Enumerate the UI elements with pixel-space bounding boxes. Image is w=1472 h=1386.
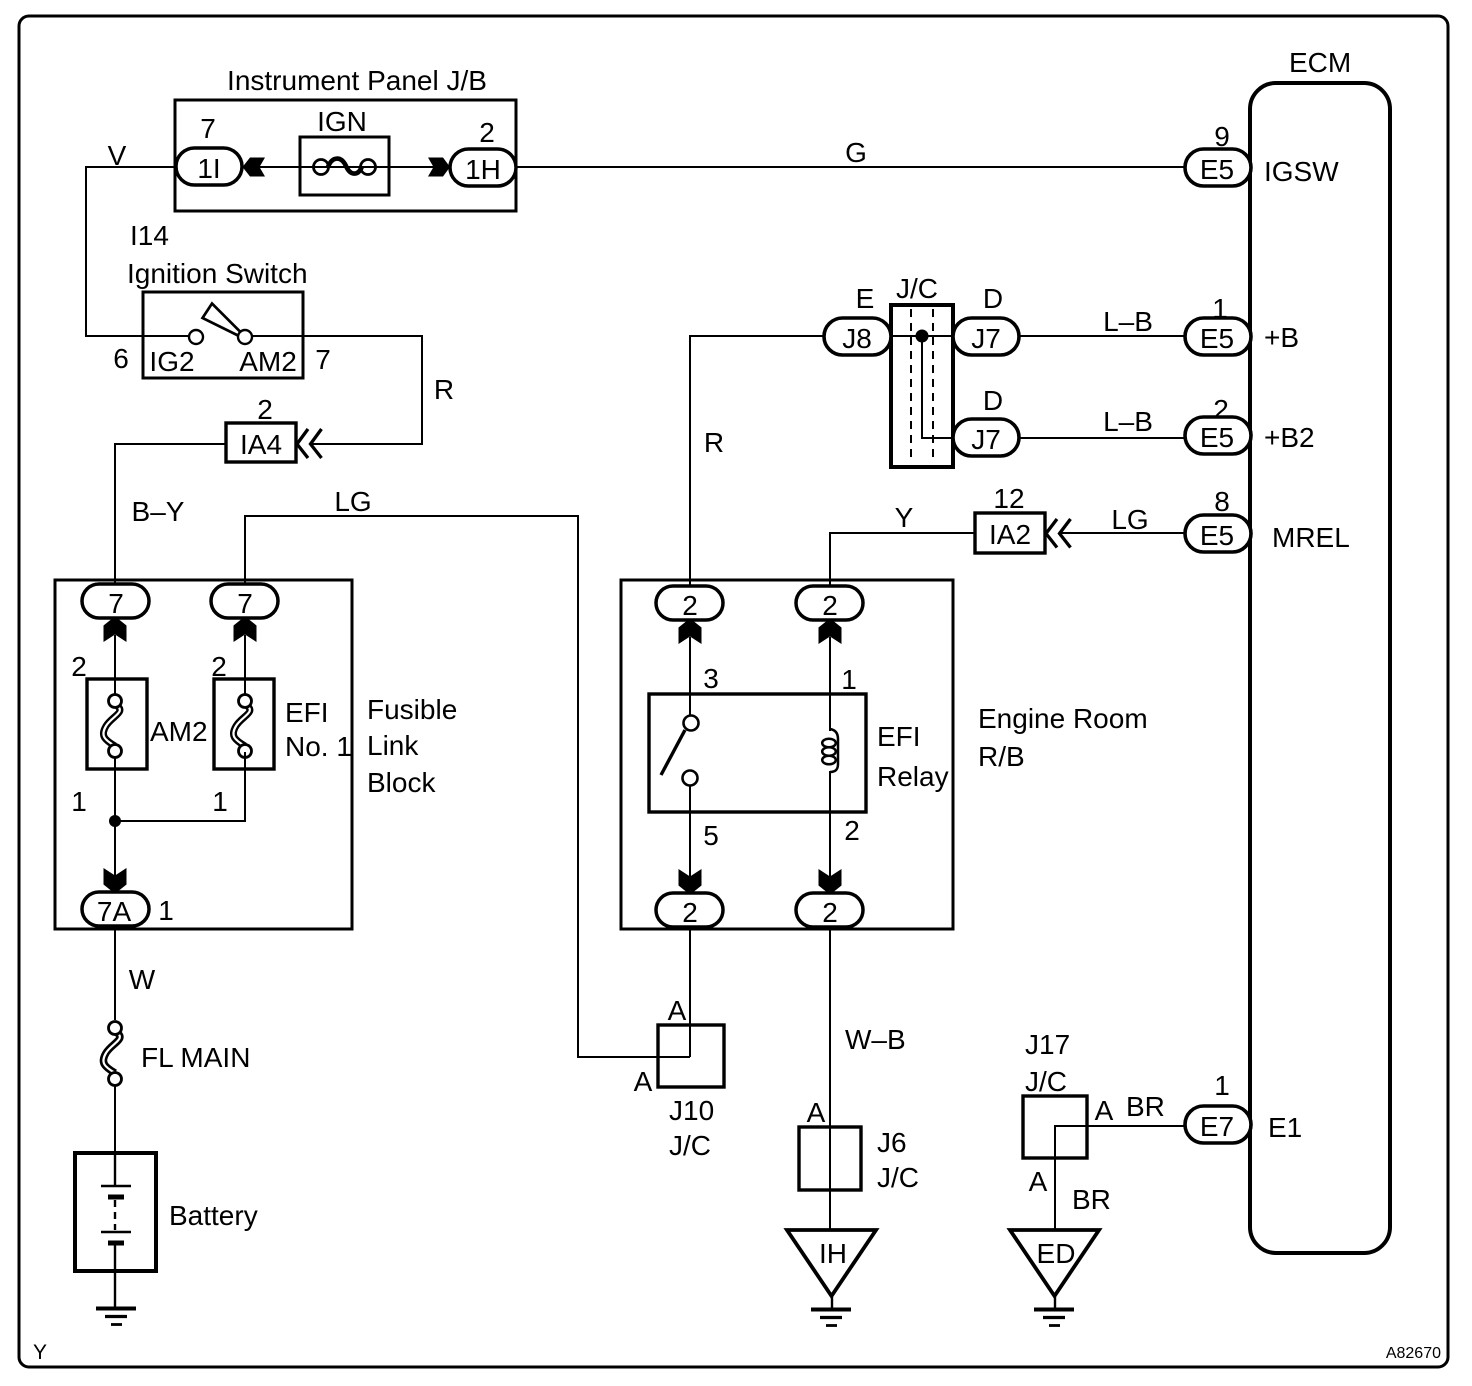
svg-text:A: A [807, 1097, 826, 1128]
svg-text:IGN: IGN [317, 106, 367, 137]
ECM box [1250, 83, 1390, 1253]
svg-text:EFI: EFI [877, 721, 921, 752]
connector 7 (right) [211, 584, 278, 619]
fuse IGN symbol [300, 159, 389, 175]
svg-text:AM2: AM2 [150, 716, 208, 747]
wire battery to ground [114, 1271, 116, 1307]
connector E5 +B [1185, 318, 1251, 355]
svg-text:BR: BR [1126, 1091, 1165, 1122]
connector IA4 [226, 423, 296, 462]
svg-text:2: 2 [682, 897, 698, 928]
wire Y from IA2 to relay coil pin 1 [830, 533, 975, 586]
svg-text:E7: E7 [1200, 1111, 1234, 1142]
svg-text:AM2: AM2 [239, 346, 297, 377]
svg-text:ED: ED [1037, 1238, 1076, 1269]
fusible link EFI No.1 box [214, 679, 274, 769]
wire pin3 [689, 637, 691, 716]
svg-text:LG: LG [334, 486, 371, 517]
svg-text:2: 2 [479, 117, 495, 148]
svg-text:6: 6 [113, 343, 129, 374]
svg-text:2: 2 [844, 815, 860, 846]
svg-text:E5: E5 [1200, 520, 1234, 551]
connector 2 (top left) [656, 586, 723, 621]
fusible link EFI No.1 symbol [233, 695, 251, 758]
svg-text:E5: E5 [1200, 422, 1234, 453]
svg-text:Engine Room: Engine Room [978, 703, 1148, 734]
svg-text:E: E [856, 283, 875, 314]
wire inside J/C down to J7 bottom [922, 336, 953, 438]
wire through J6 [829, 1127, 831, 1230]
svg-text:1H: 1H [465, 154, 501, 185]
svg-text:J7: J7 [971, 424, 1001, 455]
arrow into 1I (left-pointing solid) [243, 158, 266, 177]
svg-text:Y: Y [33, 1341, 47, 1364]
junction connector block (dashed) [891, 305, 953, 467]
connector E5 MREL [1185, 515, 1251, 552]
svg-text:I14: I14 [130, 220, 169, 251]
relay coil [822, 729, 838, 772]
up arrow under top-left 2 [679, 622, 702, 645]
IG2 contact circle [189, 330, 203, 344]
svg-text:J6: J6 [877, 1127, 907, 1158]
svg-text:W–B: W–B [845, 1024, 906, 1055]
wire R from J8 left down to EFI relay pin 3 [690, 336, 824, 586]
svg-text:+B: +B [1264, 322, 1299, 353]
connector J8 [824, 318, 891, 355]
svg-text:R: R [434, 374, 454, 405]
svg-text:1: 1 [841, 664, 857, 695]
fuse IGN box [300, 137, 389, 195]
svg-text:L–B: L–B [1103, 406, 1153, 437]
connector 2 (bottom left) [656, 893, 723, 928]
ground IH triangle [787, 1230, 876, 1296]
Engine Room R/B box [621, 580, 953, 929]
svg-text:1I: 1I [197, 153, 220, 184]
svg-text:J7: J7 [971, 323, 1001, 354]
svg-text:3: 3 [703, 663, 719, 694]
relay switch contact bottom [683, 771, 698, 786]
junction connector J10 box [658, 1025, 724, 1087]
svg-text:ECM: ECM [1289, 47, 1351, 78]
svg-text:A82670: A82670 [1386, 1345, 1441, 1362]
wire left column lower [114, 752, 116, 876]
svg-text:A: A [1095, 1095, 1114, 1126]
svg-text:Link: Link [367, 730, 419, 761]
arrow into 1H (right-pointing solid) [428, 158, 450, 177]
svg-text:D: D [983, 283, 1003, 314]
svg-text:B–Y: B–Y [132, 496, 185, 527]
svg-text:2: 2 [71, 651, 87, 682]
connector E5 IGSW [1185, 149, 1251, 186]
fusible link FL MAIN symbol [103, 1022, 121, 1086]
svg-text:J17: J17 [1025, 1029, 1070, 1060]
wire G from 1H to ECM IGSW [516, 166, 1186, 168]
svg-text:EFI: EFI [285, 697, 329, 728]
svg-text:FL MAIN: FL MAIN [141, 1042, 250, 1073]
svg-text:IH: IH [819, 1238, 847, 1269]
connector 7A [82, 892, 149, 927]
svg-text:J/C: J/C [877, 1162, 919, 1193]
wire LG from ECM MREL to IA2 [1061, 532, 1186, 534]
svg-text:1: 1 [1214, 1070, 1230, 1101]
wire right column upper [244, 635, 246, 703]
up arrow under right 7 [234, 620, 257, 643]
ground ED symbol [1034, 1296, 1074, 1326]
svg-text:Y: Y [895, 502, 914, 533]
svg-text:J8: J8 [842, 323, 872, 354]
wire from AM2 contact to right, down to IA4 [252, 336, 422, 444]
battery symbol [101, 1153, 131, 1271]
svg-text:1: 1 [212, 786, 228, 817]
svg-text:7: 7 [108, 588, 124, 619]
wire into IG2 contact [143, 335, 189, 337]
connector E7 [1185, 1106, 1251, 1143]
svg-text:Ignition Switch: Ignition Switch [127, 258, 308, 289]
svg-text:R: R [704, 427, 724, 458]
connector 1I [176, 148, 242, 185]
connector 2 (bottom right) [796, 893, 863, 928]
svg-text:7A: 7A [97, 896, 132, 927]
Fusible Link Block box [55, 580, 352, 929]
svg-text:Relay: Relay [877, 761, 949, 792]
wire L-B bottom to ECM +B2 [1019, 437, 1186, 439]
battery box [75, 1153, 156, 1271]
svg-text:J10: J10 [669, 1095, 714, 1126]
svg-text:MREL: MREL [1272, 522, 1350, 553]
wire V horizontal from 1I to left drop [86, 167, 176, 336]
svg-text:5: 5 [703, 820, 719, 851]
svg-text:Fusible: Fusible [367, 694, 457, 725]
svg-text:2: 2 [822, 590, 838, 621]
svg-text:IA2: IA2 [989, 519, 1031, 550]
ground ED triangle [1010, 1230, 1099, 1296]
svg-text:2: 2 [682, 590, 698, 621]
svg-text:J/C: J/C [669, 1130, 711, 1161]
down arrow into bottom-right 2 [819, 869, 842, 892]
svg-text:J/C: J/C [1025, 1066, 1067, 1097]
svg-text:Battery: Battery [169, 1200, 258, 1231]
junction dot [109, 815, 121, 827]
wire LG long run to J10 [245, 516, 690, 1057]
chevrons into IA4 [297, 429, 322, 458]
svg-text:Instrument Panel J/B: Instrument Panel J/B [227, 65, 487, 96]
connector 7 (left) [82, 584, 149, 619]
svg-text:1: 1 [158, 895, 174, 926]
svg-text:12: 12 [993, 483, 1024, 514]
relay coil wire pin2 [829, 771, 831, 877]
wire from J17 to E7 [1055, 1126, 1186, 1158]
wire from IGN fuse to 1H [389, 166, 451, 168]
svg-text:L–B: L–B [1103, 306, 1153, 337]
svg-text:2: 2 [822, 897, 838, 928]
wire from 7A down to FL MAIN [114, 926, 116, 1020]
svg-text:7: 7 [200, 113, 216, 144]
svg-text:IG2: IG2 [149, 346, 194, 377]
svg-text:V: V [108, 140, 127, 171]
junction connector J17 box [1023, 1096, 1087, 1158]
wire from relay pin5 down into J10 [689, 927, 691, 1057]
wire inside J17 down to ED [1054, 1158, 1056, 1230]
junction connector J6 box [799, 1127, 861, 1190]
relay switch lever [661, 730, 685, 775]
wire W-B from relay pin2 down to J6 [829, 927, 831, 1127]
wire pin5 [689, 786, 691, 877]
ground (battery) [96, 1309, 136, 1325]
svg-text:E1: E1 [1268, 1112, 1302, 1143]
wire from EFI link down and left to junction [115, 752, 245, 821]
svg-text:IGSW: IGSW [1264, 156, 1339, 187]
svg-text:No. 1: No. 1 [285, 731, 352, 762]
switch lever [203, 304, 243, 337]
ground IH symbol [811, 1296, 851, 1326]
svg-text:1: 1 [71, 786, 87, 817]
svg-text:7: 7 [315, 344, 331, 375]
down arrow into 7A [104, 868, 127, 891]
svg-text:A: A [668, 995, 687, 1026]
svg-text:J/C: J/C [896, 273, 938, 304]
svg-text:Block: Block [367, 767, 436, 798]
svg-text:+B2: +B2 [1264, 422, 1315, 453]
down arrow into bottom-left 2 [679, 869, 702, 892]
svg-text:G: G [845, 137, 867, 168]
wire from IA4 left to fusible link block [115, 444, 226, 584]
connector IA2 [975, 513, 1045, 553]
connector 2 (top right) [796, 586, 863, 621]
svg-text:A: A [634, 1066, 653, 1097]
relay switch contact top [684, 716, 699, 731]
svg-text:7: 7 [237, 588, 253, 619]
connector J7 (bottom) [953, 419, 1019, 456]
svg-text:BR: BR [1072, 1184, 1111, 1215]
wire left column upper [114, 635, 116, 703]
svg-text:A: A [1029, 1166, 1048, 1197]
svg-text:E5: E5 [1200, 154, 1234, 185]
ignition switch I14 box [143, 292, 303, 378]
svg-text:E5: E5 [1200, 323, 1234, 354]
fusible link AM2 symbol [103, 695, 121, 758]
svg-text:2: 2 [257, 394, 273, 425]
Instrument Panel J/B box [175, 100, 516, 211]
junction dot inside J/C [916, 330, 929, 343]
svg-text:R/B: R/B [978, 741, 1025, 772]
up arrow under left 7 [104, 620, 127, 643]
svg-text:8: 8 [1214, 486, 1230, 517]
wire through J/C to J7 top [891, 335, 953, 337]
svg-text:IA4: IA4 [240, 429, 282, 460]
chevrons into IA2 [1046, 519, 1071, 548]
fusible link AM2 box [87, 679, 147, 769]
svg-text:D: D [983, 385, 1003, 416]
AM2 contact circle [238, 330, 252, 344]
connector 1H [450, 149, 516, 186]
connector E5 +B2 [1185, 417, 1251, 454]
wire L-B top to ECM +B [1019, 335, 1186, 337]
wire from FL MAIN to battery [114, 1086, 116, 1153]
svg-text:W: W [129, 964, 156, 995]
EFI relay box [649, 694, 866, 812]
up arrow under top-right 2 [819, 622, 842, 645]
relay coil wire pin1 [829, 637, 831, 731]
connector J7 (top) [953, 318, 1019, 355]
wire inside J/B from 1I to IGN fuse [242, 166, 300, 168]
svg-text:LG: LG [1111, 504, 1148, 535]
